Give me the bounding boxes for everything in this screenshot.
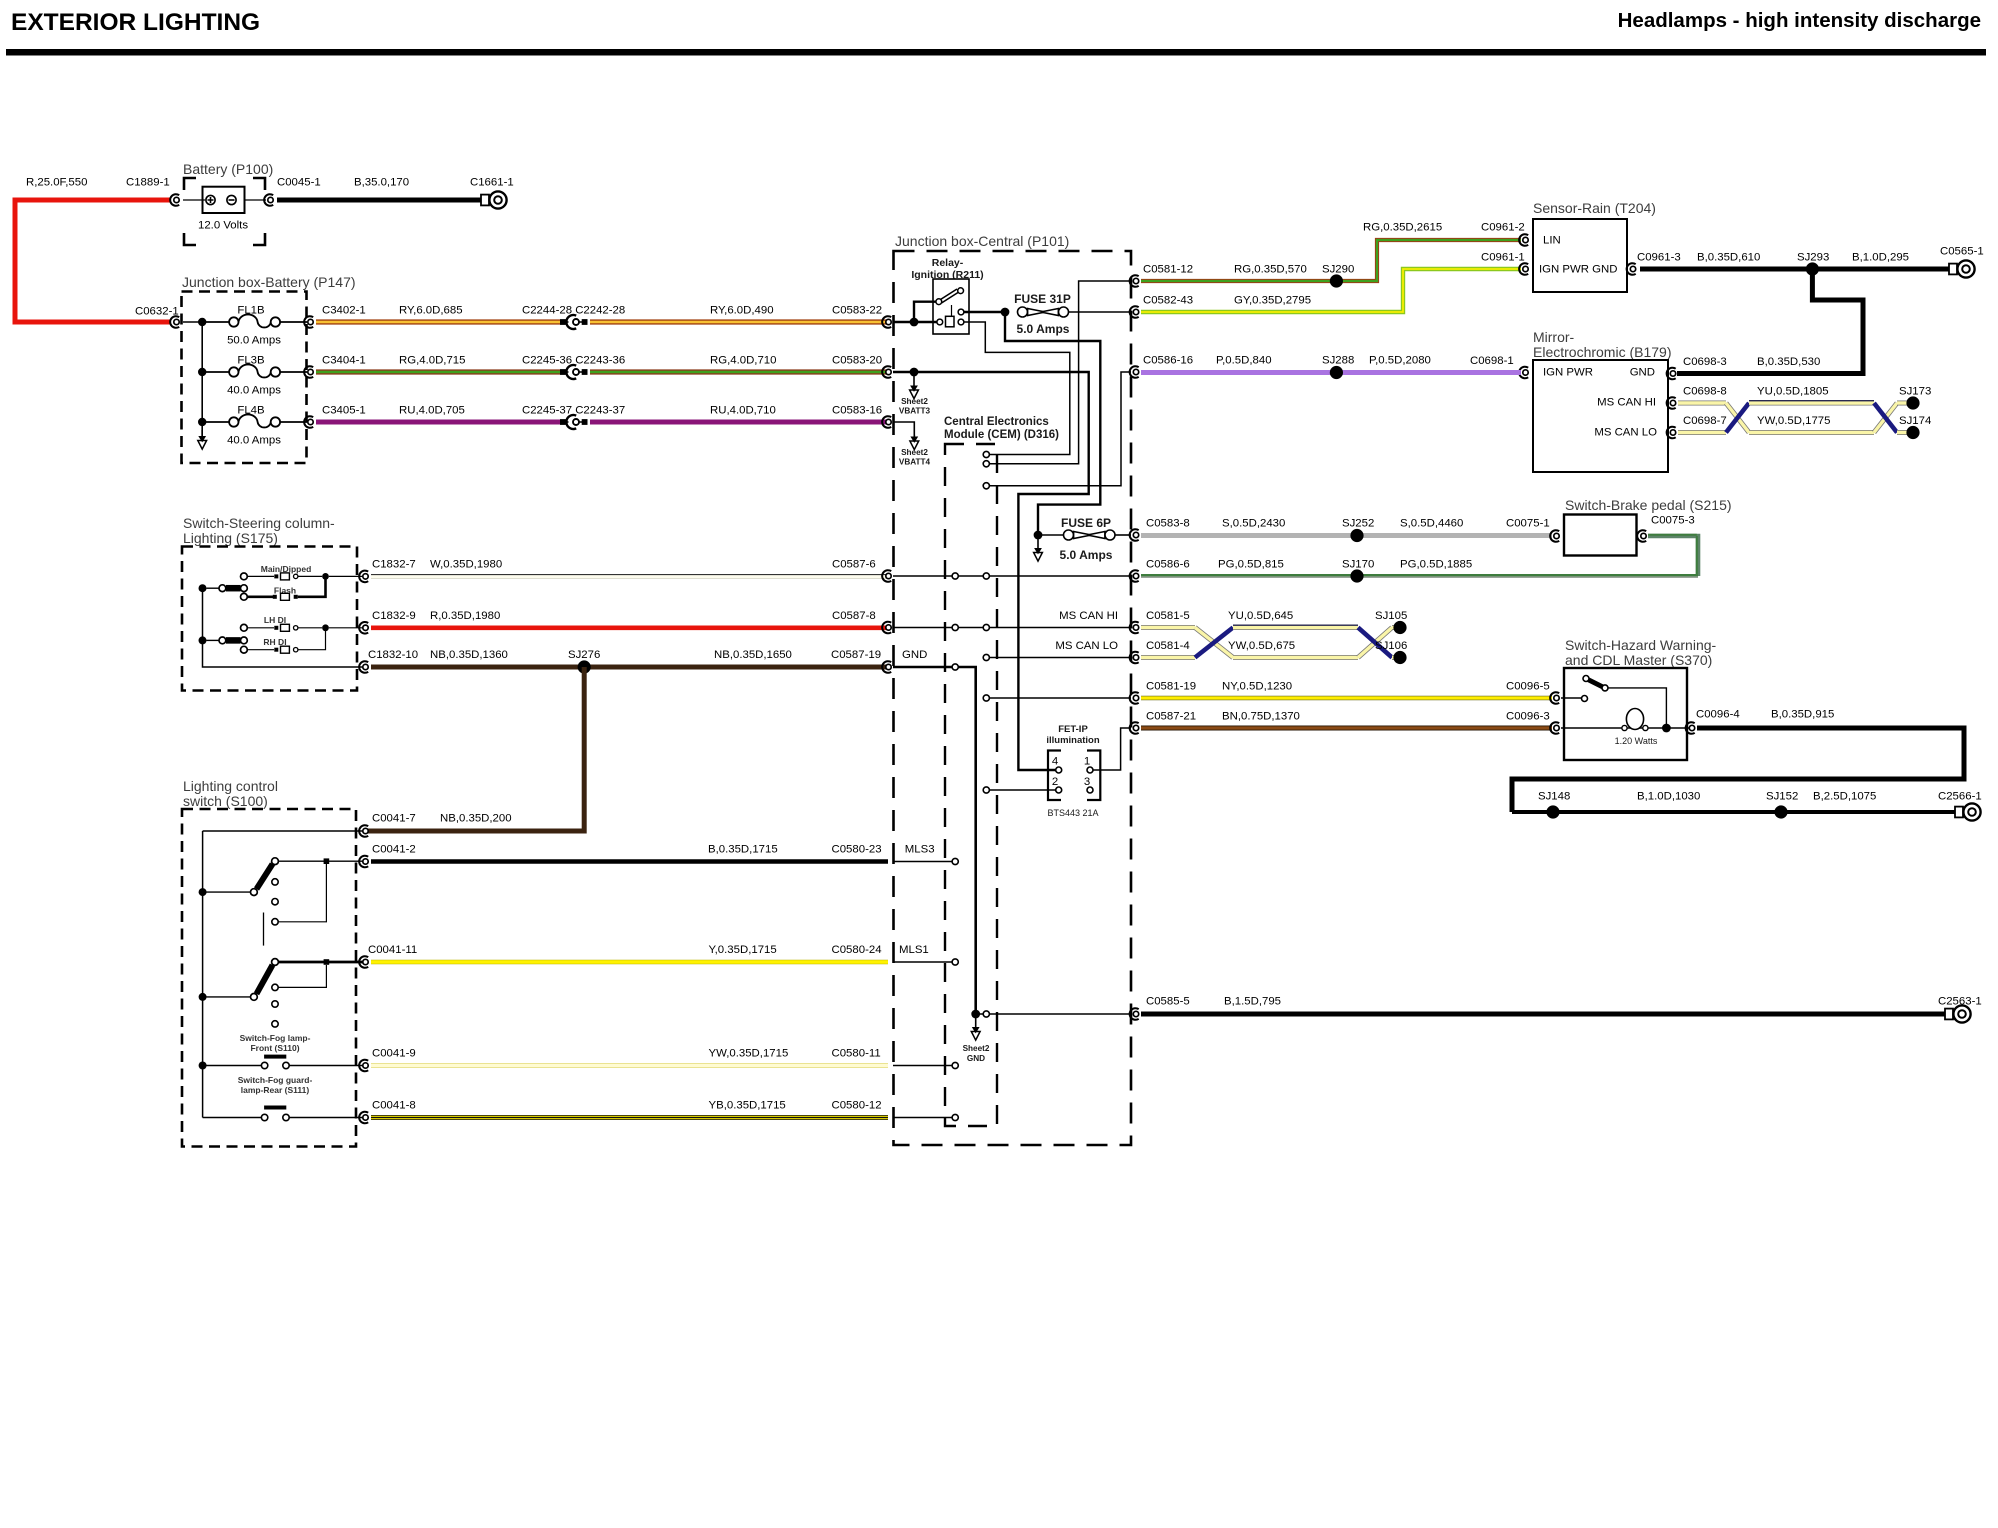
wire B,0.35D,1715 bbox=[371, 859, 888, 864]
svg-text:Sensor-Rain (T204): Sensor-Rain (T204) bbox=[1533, 200, 1656, 216]
wire PG return from brake switch bbox=[1648, 536, 1698, 576]
connector C1832-10 bbox=[359, 661, 368, 673]
svg-text:Lighting (S175): Lighting (S175) bbox=[183, 530, 278, 546]
wire B,0.35D,915 bbox=[1512, 728, 1964, 812]
svg-text:BTS443 21A: BTS443 21A bbox=[1047, 808, 1098, 818]
RH DI contact row bbox=[247, 631, 325, 653]
svg-text:C2245-36 C2243-36: C2245-36 C2243-36 bbox=[522, 355, 625, 367]
battery lead wires bbox=[183, 199, 266, 201]
battery terminal minus bbox=[227, 195, 236, 204]
wire MLS3 inner bbox=[893, 861, 952, 863]
node LH DI out bbox=[322, 624, 329, 631]
wire C0583-16 to VBATT4 bbox=[893, 422, 914, 438]
connector C0698-7 bbox=[1667, 427, 1676, 439]
svg-text:SJ152: SJ152 bbox=[1766, 791, 1798, 803]
svg-text:50.0 Amps: 50.0 Amps bbox=[227, 335, 281, 347]
svg-text:C0698-1: C0698-1 bbox=[1470, 355, 1514, 367]
fuse FUSE31P bbox=[1018, 307, 1132, 317]
wire CEM to FETIP pin2 bbox=[990, 789, 1056, 791]
contact RH DI bbox=[241, 646, 248, 653]
battery terminal plus bbox=[206, 195, 215, 204]
switch MLS1: pivot and blade bbox=[207, 959, 279, 1001]
ring terminal C2563-1 bbox=[1945, 1005, 1971, 1022]
svg-text:4: 4 bbox=[1052, 756, 1058, 768]
wire YB,0.35D,1715 bbox=[371, 1115, 888, 1120]
wire relay coil out to CEM pin1 bbox=[964, 322, 1070, 455]
inline connector C2245-37 C2243-37 bbox=[561, 415, 588, 429]
svg-text:2: 2 bbox=[1052, 776, 1058, 788]
splice SJ174 bbox=[1906, 426, 1919, 439]
svg-text:RG,0.35D,570: RG,0.35D,570 bbox=[1234, 264, 1307, 276]
svg-text:C0961-3: C0961-3 bbox=[1637, 252, 1681, 264]
svg-text:C0045-1: C0045-1 bbox=[277, 177, 321, 189]
svg-text:LIN: LIN bbox=[1543, 235, 1561, 247]
wire BN,0.75D,1370 bbox=[1141, 726, 1552, 731]
svg-text:SJ293: SJ293 bbox=[1797, 252, 1829, 264]
connector C3405-1 bbox=[304, 416, 313, 428]
node S100 bus S110 bbox=[199, 1062, 207, 1070]
S111 wires bbox=[203, 1117, 261, 1119]
svg-text:C0587-8: C0587-8 bbox=[832, 610, 876, 622]
MLS1 stack link bbox=[278, 965, 326, 987]
P147 internal bus bbox=[183, 322, 202, 437]
junction box battery P147 dashed box bbox=[182, 292, 307, 464]
switch steering column S175 dashed box bbox=[182, 547, 357, 691]
svg-text:VBATT3: VBATT3 bbox=[899, 407, 931, 416]
svg-text:SJ173: SJ173 bbox=[1899, 386, 1931, 398]
wire B,0.35D,610 / B,1.0D,295 bbox=[1640, 267, 1950, 272]
svg-text:NB,0.35D,200: NB,0.35D,200 bbox=[440, 813, 512, 825]
S110 wires bbox=[207, 1065, 262, 1067]
wire MLS1 inner bbox=[893, 961, 952, 963]
svg-text:Headlamps - high intensity dis: Headlamps - high intensity discharge bbox=[1618, 9, 1981, 32]
connector C0041-2 bbox=[359, 856, 368, 868]
svg-text:YW,0.5D,1775: YW,0.5D,1775 bbox=[1757, 415, 1830, 427]
connector C3402-1 bbox=[304, 316, 313, 328]
connector C0041-11 bbox=[359, 956, 368, 968]
node FUSE6P feed bbox=[1034, 531, 1043, 540]
connector C0961-3 bbox=[1627, 263, 1636, 275]
wire C0580-11 inner bbox=[893, 1065, 952, 1067]
relay pins bbox=[937, 309, 964, 325]
svg-text:C0565-1: C0565-1 bbox=[1940, 246, 1984, 258]
fusible link FL1B bbox=[206, 314, 307, 327]
splice SJ252 bbox=[1350, 529, 1363, 542]
connector C0581-19 on P101 right edge bbox=[1130, 692, 1139, 704]
svg-text:NB,0.35D,1360: NB,0.35D,1360 bbox=[430, 649, 508, 661]
wire SJ293 drop to mirror GND bbox=[1677, 269, 1863, 374]
svg-text:1.20 Watts: 1.20 Watts bbox=[1615, 736, 1658, 746]
svg-text:C0583-22: C0583-22 bbox=[832, 305, 882, 317]
connector C0586-16 on P101 right edge bbox=[1130, 366, 1139, 378]
node VBATT3 tap bbox=[910, 368, 919, 377]
svg-text:C1889-1: C1889-1 bbox=[126, 177, 170, 189]
svg-text:YW,0.5D,675: YW,0.5D,675 bbox=[1228, 640, 1295, 652]
svg-text:NB,0.35D,1650: NB,0.35D,1650 bbox=[714, 649, 792, 661]
svg-text:C0581-19: C0581-19 bbox=[1146, 681, 1196, 693]
wire to C1832-7 bbox=[329, 575, 363, 577]
ring terminal C0565-1 bbox=[1949, 260, 1975, 277]
node relay feed bbox=[910, 318, 919, 327]
wire GY,0.35D,2795 bbox=[1141, 269, 1521, 312]
connector C0583-20 on P101 edge bbox=[882, 366, 891, 378]
node fuse31P feed bbox=[1001, 308, 1010, 317]
svg-text:C1832-7: C1832-7 bbox=[372, 559, 416, 571]
splice SJ293 bbox=[1806, 262, 1819, 275]
svg-text:RY,6.0D,490: RY,6.0D,490 bbox=[710, 305, 774, 317]
wire RU,4.0D,705 bbox=[316, 420, 560, 425]
svg-text:Switch-Steering column-: Switch-Steering column- bbox=[183, 515, 335, 531]
svg-text:RU,4.0D,710: RU,4.0D,710 bbox=[710, 405, 776, 417]
svg-text:FL1B: FL1B bbox=[237, 305, 264, 317]
svg-text:Sheet2: Sheet2 bbox=[963, 1044, 990, 1053]
svg-text:C0581-5: C0581-5 bbox=[1146, 610, 1190, 622]
sensor rain T204 box bbox=[1533, 219, 1627, 292]
svg-text:RG,4.0D,710: RG,4.0D,710 bbox=[710, 355, 776, 367]
S100 internal bus bbox=[202, 831, 204, 1118]
switch blade main/dip bbox=[207, 585, 248, 592]
MLS3 tip wire and node bbox=[278, 860, 363, 862]
wire RG,4.0D,710 bbox=[590, 369, 888, 374]
svg-text:S,0.5D,2430: S,0.5D,2430 bbox=[1222, 518, 1285, 530]
svg-text:NY,0.5D,1230: NY,0.5D,1230 bbox=[1222, 681, 1292, 693]
node GND bbox=[971, 1010, 980, 1019]
svg-text:C0581-4: C0581-4 bbox=[1146, 640, 1190, 652]
svg-text:MLS1: MLS1 bbox=[899, 944, 929, 956]
inline connector C2244-28 C2242-28 bbox=[561, 315, 588, 329]
wire CEM pin3 to C0586-16 bbox=[990, 372, 1132, 486]
svg-text:Junction box-Central (P101): Junction box-Central (P101) bbox=[895, 233, 1069, 249]
svg-text:B,0.35D,1715: B,0.35D,1715 bbox=[708, 844, 778, 856]
node hazard out bbox=[1662, 724, 1671, 733]
connector C0075-3 bbox=[1637, 530, 1646, 542]
svg-text:Central Electronics: Central Electronics bbox=[944, 416, 1049, 428]
svg-text:YU,0.5D,645: YU,0.5D,645 bbox=[1228, 610, 1293, 622]
switch MLS3: pivot and blade bbox=[207, 858, 279, 896]
splice SJ288 bbox=[1330, 366, 1343, 379]
svg-text:C0587-19: C0587-19 bbox=[831, 649, 881, 661]
svg-text:C0096-5: C0096-5 bbox=[1506, 681, 1550, 693]
svg-text:Electrochromic (B179): Electrochromic (B179) bbox=[1533, 344, 1672, 360]
svg-text:R,25.0F,550: R,25.0F,550 bbox=[26, 177, 87, 189]
svg-text:5.0 Amps: 5.0 Amps bbox=[1017, 322, 1070, 336]
svg-text:Switch-Fog guard-: Switch-Fog guard- bbox=[238, 1075, 313, 1085]
wire CEM to C0581-19 row 698 bbox=[990, 697, 1132, 699]
svg-text:C3402-1: C3402-1 bbox=[322, 305, 366, 317]
connector C0698-8 bbox=[1667, 397, 1676, 409]
svg-text:C0580-24: C0580-24 bbox=[832, 944, 882, 956]
svg-text:FUSE 6P: FUSE 6P bbox=[1061, 516, 1111, 530]
svg-text:Lighting control: Lighting control bbox=[183, 778, 278, 794]
node bus-FL3B bbox=[198, 368, 206, 376]
svg-text:C0581-12: C0581-12 bbox=[1143, 264, 1193, 276]
connector C0096-3 bbox=[1550, 722, 1559, 734]
svg-text:FL3B: FL3B bbox=[237, 355, 264, 367]
S175 internal bus bbox=[203, 588, 364, 667]
svg-text:GY,0.35D,2795: GY,0.35D,2795 bbox=[1234, 295, 1311, 307]
svg-text:C0580-11: C0580-11 bbox=[832, 1048, 881, 1060]
svg-text:MS CAN HI: MS CAN HI bbox=[1597, 397, 1656, 409]
svg-text:YB,0.35D,1715: YB,0.35D,1715 bbox=[709, 1100, 786, 1112]
svg-text:B,0.35D,915: B,0.35D,915 bbox=[1771, 709, 1834, 721]
offpage arrow P147 bus bbox=[198, 430, 207, 449]
svg-text:C3404-1: C3404-1 bbox=[322, 355, 366, 367]
svg-text:BN,0.75D,1370: BN,0.75D,1370 bbox=[1222, 711, 1300, 723]
svg-text:3: 3 bbox=[1084, 776, 1090, 788]
svg-text:Y,0.35D,1715: Y,0.35D,1715 bbox=[709, 944, 777, 956]
connector C0698-3 bbox=[1667, 368, 1676, 380]
svg-text:IGN PWR GND: IGN PWR GND bbox=[1539, 264, 1617, 276]
svg-text:C0586-6: C0586-6 bbox=[1146, 559, 1190, 571]
mirror electrochromic B179 box bbox=[1533, 360, 1668, 472]
wire PG,0.5D,815 / PG,0.5D,1885 bbox=[1141, 574, 1698, 578]
wire P,0.5D,840 / P,0.5D,2080 bbox=[1141, 370, 1521, 375]
wire fuse31P branch to FUSE6P bbox=[1005, 312, 1100, 535]
svg-text:B,1.0D,1030: B,1.0D,1030 bbox=[1637, 791, 1700, 803]
svg-text:YW,0.35D,1715: YW,0.35D,1715 bbox=[709, 1048, 789, 1060]
svg-text:RG,4.0D,715: RG,4.0D,715 bbox=[399, 355, 465, 367]
connector C0041-9 bbox=[359, 1060, 368, 1072]
connector C0075-1 bbox=[1550, 530, 1559, 542]
svg-text:MS CAN LO: MS CAN LO bbox=[1055, 640, 1118, 652]
svg-text:C0586-16: C0586-16 bbox=[1143, 355, 1193, 367]
wire R,25.0F,550 battery feed bbox=[15, 200, 170, 322]
connector C0583-22 on P101 edge bbox=[882, 316, 891, 328]
switch hazard S370 box bbox=[1564, 668, 1687, 760]
connector C1832-7 bbox=[359, 571, 368, 583]
svg-text:C0587-6: C0587-6 bbox=[832, 559, 876, 571]
wire through CEM row 627.5 bbox=[893, 627, 1131, 629]
inline connector C2245-36 C2243-36 bbox=[561, 365, 588, 379]
splice SJ290 bbox=[1330, 274, 1343, 287]
svg-text:C0096-3: C0096-3 bbox=[1506, 711, 1550, 723]
svg-text:VBATT4: VBATT4 bbox=[899, 458, 931, 467]
CEM D316 dashed box bbox=[945, 444, 997, 1126]
svg-text:RY,6.0D,685: RY,6.0D,685 bbox=[399, 305, 463, 317]
splice SJ170 bbox=[1350, 569, 1363, 582]
node S100 bus MLS3 bbox=[199, 888, 207, 896]
connector C3404-1 bbox=[304, 366, 313, 378]
svg-text:C0075-1: C0075-1 bbox=[1506, 518, 1550, 530]
hazard switch blade bbox=[1561, 676, 1608, 702]
svg-text:Junction box-Battery (P147): Junction box-Battery (P147) bbox=[182, 274, 356, 290]
wire FETIP pin1 to C0587-21 bbox=[1093, 728, 1131, 770]
svg-text:FUSE 31P: FUSE 31P bbox=[1014, 292, 1071, 306]
svg-text:PG,0.5D,815: PG,0.5D,815 bbox=[1218, 559, 1284, 571]
svg-text:C0580-12: C0580-12 bbox=[832, 1100, 882, 1112]
svg-text:C3405-1: C3405-1 bbox=[322, 405, 366, 417]
MLS1 tip wire and node bbox=[278, 961, 363, 964]
battery P100 box bbox=[203, 187, 245, 213]
node bus-FL4B bbox=[198, 418, 206, 426]
svg-text:Module (CEM) (D316): Module (CEM) (D316) bbox=[944, 429, 1059, 441]
svg-text:Battery (P100): Battery (P100) bbox=[183, 161, 273, 177]
svg-text:B,0.35D,610: B,0.35D,610 bbox=[1697, 252, 1760, 264]
hazard lamp wire bbox=[1561, 727, 1692, 729]
svg-text:B,2.5D,1075: B,2.5D,1075 bbox=[1813, 791, 1876, 803]
S111 actuator bar bbox=[264, 1106, 286, 1110]
offpage arrow VBATT3 bbox=[910, 372, 919, 399]
CEM pins left column bbox=[952, 573, 958, 1121]
svg-text:C0041-11: C0041-11 bbox=[368, 944, 417, 956]
FET-IP pins bbox=[1056, 767, 1093, 793]
CEM pins right column bbox=[983, 451, 989, 1017]
svg-text:40.0 Amps: 40.0 Amps bbox=[227, 435, 281, 447]
svg-text:W,0.35D,1980: W,0.35D,1980 bbox=[430, 559, 502, 571]
junction box central P101 dashed box bbox=[894, 251, 1132, 1145]
svg-text:GND: GND bbox=[967, 1054, 985, 1063]
svg-text:PG,0.5D,1885: PG,0.5D,1885 bbox=[1400, 559, 1472, 571]
relay blade bbox=[936, 288, 964, 305]
S110 contacts bbox=[261, 1062, 289, 1068]
contact flash bbox=[241, 593, 248, 600]
header rule bbox=[6, 49, 1986, 56]
svg-text:SJ290: SJ290 bbox=[1322, 264, 1354, 276]
wire NY,0.5D,1230 bbox=[1141, 696, 1552, 701]
node bus-FL1B bbox=[198, 318, 206, 326]
svg-text:Mirror-: Mirror- bbox=[1533, 329, 1575, 345]
node S100 bus MLS1 bbox=[199, 993, 207, 1001]
svg-text:Switch-Fog lamp-: Switch-Fog lamp- bbox=[240, 1033, 311, 1043]
svg-text:and CDL Master (S370): and CDL Master (S370) bbox=[1565, 652, 1712, 668]
S111 contacts bbox=[261, 1114, 289, 1120]
svg-text:RH DI: RH DI bbox=[263, 637, 286, 647]
svg-text:C0041-7: C0041-7 bbox=[372, 813, 416, 825]
svg-text:SJ288: SJ288 bbox=[1322, 355, 1354, 367]
svg-text:RU,4.0D,705: RU,4.0D,705 bbox=[399, 405, 465, 417]
contact LH DI bbox=[241, 624, 248, 631]
ring terminal C2566-1 bbox=[1955, 803, 1981, 820]
splice SJ148 bbox=[1546, 805, 1559, 818]
connector C1889-1 bbox=[170, 194, 179, 206]
svg-text:C0961-2: C0961-2 bbox=[1481, 222, 1525, 234]
LH DI contact row bbox=[247, 624, 322, 631]
svg-text:C0075-3: C0075-3 bbox=[1651, 515, 1695, 527]
svg-text:C2566-1: C2566-1 bbox=[1938, 791, 1982, 803]
switch brake pedal S215 box bbox=[1564, 515, 1637, 556]
wire GND to C0585-5 bbox=[976, 1013, 1131, 1015]
wire RY,6.0D,685 bbox=[316, 319, 560, 324]
splice SJ173 bbox=[1906, 396, 1919, 409]
svg-text:C2244-28 C2242-28: C2244-28 C2242-28 bbox=[522, 305, 625, 317]
wire YW,0.35D,1715 bbox=[371, 1063, 888, 1068]
svg-text:SJ276: SJ276 bbox=[568, 649, 600, 661]
svg-text:C0632-1: C0632-1 bbox=[135, 306, 179, 318]
connector C0041-7 bbox=[359, 825, 368, 837]
connector C0632-1 bbox=[170, 316, 179, 328]
svg-text:Sheet2: Sheet2 bbox=[901, 397, 928, 406]
wire RG,0.35D,570 + RG,0.35D,2615 to rain sensor bbox=[1141, 240, 1521, 281]
svg-text:C0583-8: C0583-8 bbox=[1146, 518, 1190, 530]
svg-text:P,0.5D,2080: P,0.5D,2080 bbox=[1369, 355, 1431, 367]
connector C0583-8 on P101 right edge bbox=[1130, 529, 1139, 541]
wire RU,4.0D,710 bbox=[590, 420, 888, 425]
ring terminal C1661-1 bbox=[481, 191, 507, 208]
svg-text:Sheet2: Sheet2 bbox=[901, 448, 928, 457]
wire through CEM row 576 bbox=[893, 575, 1131, 577]
connector C0581-4 on P101 right edge bbox=[1130, 652, 1139, 664]
svg-text:C0041-9: C0041-9 bbox=[372, 1048, 416, 1060]
twisted pair mirror CAN bbox=[1678, 401, 1907, 433]
wire B,1.0D,1030 / B,2.5D,1075 bbox=[1512, 810, 1956, 814]
svg-text:C0698-8: C0698-8 bbox=[1683, 386, 1727, 398]
svg-text:12.0 Volts: 12.0 Volts bbox=[198, 220, 248, 232]
connector C0583-16 on P101 edge bbox=[882, 416, 891, 428]
svg-text:C1832-10: C1832-10 bbox=[368, 649, 418, 661]
connector C0041-8 bbox=[359, 1112, 368, 1124]
svg-text:SJ106: SJ106 bbox=[1375, 640, 1407, 652]
svg-text:SJ252: SJ252 bbox=[1342, 518, 1374, 530]
svg-text:GND: GND bbox=[902, 649, 927, 661]
offpage arrow below fuse6P node bbox=[1034, 535, 1043, 561]
svg-text:B,1.5D,795: B,1.5D,795 bbox=[1224, 996, 1281, 1008]
svg-text:C0961-1: C0961-1 bbox=[1481, 252, 1525, 264]
svg-text:B,35.0,170: B,35.0,170 bbox=[354, 177, 409, 189]
connector C0698-1 bbox=[1519, 367, 1528, 379]
battery shell brackets bbox=[184, 178, 265, 245]
connector C0582-43 on P101 right edge bbox=[1130, 306, 1139, 318]
switch blade direction-indicator bbox=[207, 637, 248, 644]
wire CEM to C0581-4 row 657.5 bbox=[986, 657, 1131, 659]
svg-text:SJ105: SJ105 bbox=[1375, 610, 1407, 622]
wire B,35.0,170 bbox=[277, 198, 482, 203]
connector C0961-1 bbox=[1519, 263, 1528, 275]
splice SJ276 bbox=[578, 660, 591, 673]
wire VBATT feed to FETIP pin4 bbox=[893, 372, 1089, 770]
svg-text:illumination: illumination bbox=[1046, 735, 1100, 746]
connector C0586-6 on P101 right edge bbox=[1130, 570, 1139, 582]
wire RY,6.0D,490 bbox=[590, 319, 888, 324]
wire NB,0.35D,1360 bbox=[371, 665, 888, 670]
wire C0583-22 to relay bbox=[893, 321, 937, 323]
wire C0041-7 internal bbox=[203, 830, 363, 832]
connector C0961-2 bbox=[1519, 234, 1528, 246]
wire to C1832-9 bbox=[329, 627, 363, 629]
MLS3 stack link bbox=[278, 864, 326, 922]
svg-text:C1661-1: C1661-1 bbox=[470, 177, 514, 189]
wire relay out to fuse31P bbox=[964, 311, 1005, 313]
svg-text:IGN PWR: IGN PWR bbox=[1543, 367, 1593, 379]
svg-text:MLS3: MLS3 bbox=[905, 844, 935, 856]
svg-text:switch (S100): switch (S100) bbox=[183, 793, 268, 809]
contacts MLS1 stack bbox=[272, 984, 278, 1027]
splice SJ152 bbox=[1774, 805, 1787, 818]
connector C0587-19 on P101 edge bbox=[882, 661, 891, 673]
svg-text:YU,0.5D,1805: YU,0.5D,1805 bbox=[1757, 386, 1829, 398]
wire NB,0.35D,200 drop to S100 bbox=[366, 667, 584, 831]
offpage arrow VBATT4 bbox=[910, 435, 919, 450]
connector C0096-5 bbox=[1550, 692, 1559, 704]
hazard switch blade output bbox=[1608, 688, 1666, 726]
svg-text:SJ174: SJ174 bbox=[1899, 415, 1931, 427]
svg-text:C0580-23: C0580-23 bbox=[832, 844, 882, 856]
wire R,0.35D,1980 bbox=[371, 625, 888, 630]
contact main/dipped bbox=[241, 573, 248, 580]
main/dipped contact row bbox=[247, 573, 322, 580]
connector C0045-1 bbox=[264, 194, 273, 206]
svg-text:MS CAN HI: MS CAN HI bbox=[1059, 610, 1118, 622]
relay ignition R211 box bbox=[933, 279, 969, 334]
connector C0581-12 on P101 right edge bbox=[1130, 275, 1139, 287]
svg-text:B,1.0D,295: B,1.0D,295 bbox=[1852, 252, 1909, 264]
svg-text:C0583-20: C0583-20 bbox=[832, 355, 882, 367]
svg-text:SJ148: SJ148 bbox=[1538, 791, 1570, 803]
connector C0587-8 on P101 edge bbox=[882, 622, 891, 634]
svg-text:C1832-9: C1832-9 bbox=[372, 610, 416, 622]
FET-IP shell brackets bbox=[1048, 751, 1100, 801]
splice SJ105 bbox=[1393, 621, 1406, 634]
svg-text:C0041-2: C0041-2 bbox=[372, 844, 416, 856]
